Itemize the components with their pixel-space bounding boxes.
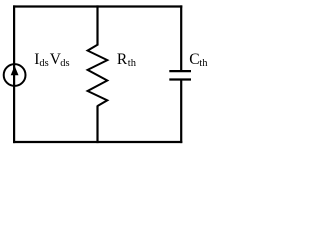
wire bottom (13, 141, 182, 143)
svg-text:IdsVds: IdsVds (34, 51, 69, 69)
wire right lower (180, 80, 182, 143)
svg-text:Rth: Rth (117, 51, 137, 69)
resistor Rth (88, 45, 108, 106)
capacitor Cth (169, 71, 191, 79)
svg-text:Cth: Cth (189, 51, 208, 69)
wire top (13, 5, 182, 7)
wire middle top (96, 5, 98, 45)
wire middle bottom (96, 106, 98, 144)
wire left (13, 5, 15, 143)
wire right upper (180, 5, 182, 70)
current source I1 (4, 64, 26, 86)
